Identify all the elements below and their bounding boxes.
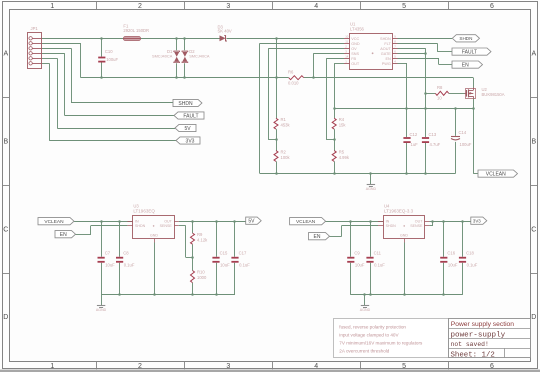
svg-text:OUT: OUT [351, 62, 360, 66]
svg-text:EN: EN [386, 57, 392, 61]
wire overvoltage divider column [276, 78, 278, 119]
wire U4 AGND stub [364, 295, 366, 305]
net flag SHDN left [173, 99, 202, 106]
wire U1 SHDN pin to flag [398, 38, 453, 40]
junction at (425.5,53.3) [424, 52, 427, 55]
junction at (101.8,38.3) [100, 37, 103, 40]
wire U3 output cap columns [216, 221, 218, 257]
svg-text:C16: C16 [447, 251, 455, 256]
wire U3 OUT row to 5V flag [179, 221, 246, 223]
wire bottom ground rail [260, 173, 456, 175]
svg-text:A: A [531, 51, 536, 58]
svg-text:4: 4 [314, 363, 318, 370]
bottom shadow strip [0, 370, 540, 372]
wire JP1 pin4 to FAULT flag [42, 53, 65, 55]
junction at (154.0,294.9) [153, 293, 156, 296]
wire U4 OUT row to 3V3 flag [429, 221, 470, 223]
wire U3 GND column [154, 243, 156, 295]
junction at (370,221.2) [369, 220, 372, 223]
svg-text:JP1: JP1 [31, 26, 39, 31]
resistor R10 [191, 271, 195, 283]
net flag FAULT right [452, 48, 491, 55]
svg-text:SK 40V: SK 40V [218, 29, 232, 34]
wire U1 FLT pin to FAULT flag [398, 43, 438, 45]
diode D3 [220, 35, 226, 41]
svg-text:AOUT: AOUT [380, 47, 391, 51]
wire U3 AGND stub [101, 295, 103, 305]
svg-text:C17: C17 [239, 251, 247, 256]
wire C11 column [370, 221, 372, 257]
svg-text:0.010: 0.010 [288, 80, 299, 85]
svg-text:GND: GND [150, 234, 158, 238]
svg-text:GND: GND [400, 234, 408, 238]
svg-text:C13: C13 [429, 132, 437, 137]
wire U1 GND pin to bottom rail [260, 43, 344, 45]
svg-text:SHDN: SHDN [459, 36, 472, 41]
svg-text:C8: C8 [123, 251, 129, 256]
svg-text:fused, reverse polarity protec: fused, reverse polarity protection [339, 324, 406, 329]
wire D1 column [176, 38, 178, 50]
svg-text:10: 10 [345, 35, 349, 39]
net flag 5V output [246, 217, 262, 224]
wire JP1 pin2 to ground rail [42, 43, 81, 45]
svg-text:SENSE: SENSE [410, 224, 423, 228]
junction at (334.2,139.9) [333, 138, 336, 141]
junction at (404,294.9) [403, 293, 406, 296]
op-amp U1 LT4356 box [350, 34, 393, 70]
svg-text:4.12k: 4.12k [197, 238, 208, 243]
svg-text:VCC: VCC [351, 37, 359, 41]
notes box [334, 319, 449, 358]
svg-text:7V minimum/16V maximum to regu: 7V minimum/16V maximum to regulators [339, 341, 423, 346]
wire middle ground stub [370, 174, 372, 185]
svg-text:0.1uF: 0.1uF [374, 262, 385, 267]
svg-text:GND: GND [351, 42, 360, 46]
svg-text:SHDN: SHDN [135, 224, 146, 228]
resistor R1 [274, 118, 278, 129]
wire U1 PWG column / C12 [398, 63, 408, 65]
svg-text:1uF: 1uF [411, 142, 419, 147]
junction at (276,173.5) [275, 172, 278, 175]
junction at (192.5,294.9) [191, 293, 194, 296]
TVS diode D2 [182, 52, 187, 57]
svg-text:Power supply section: Power supply section [451, 321, 514, 328]
svg-text:4.7uF: 4.7uF [430, 142, 441, 147]
svg-text:R4: R4 [339, 117, 345, 122]
net flag VCLEAN U4 [290, 218, 326, 225]
junction at (407,108.9) [405, 107, 408, 110]
svg-text:A: A [3, 51, 8, 58]
junction at (216,221.2) [215, 220, 218, 223]
wire feedback divider column [334, 109, 336, 118]
net flag 3V3 left [176, 137, 200, 144]
wire U4 output cap columns [443, 221, 445, 257]
svg-text:1: 1 [50, 363, 54, 370]
svg-text:C7: C7 [105, 251, 111, 256]
svg-text:10: 10 [437, 96, 442, 101]
wire main input rail [41, 38, 123, 40]
svg-text:3: 3 [226, 363, 230, 370]
svg-text:3V3: 3V3 [186, 138, 195, 144]
wire gate resistor row [426, 93, 436, 95]
wire C14 column [455, 109, 457, 136]
svg-text:5: 5 [402, 363, 406, 370]
capacitor C13 [422, 137, 429, 139]
svg-text:EN: EN [462, 62, 469, 68]
svg-text:4.99k: 4.99k [339, 155, 350, 160]
svg-text:OV: OV [351, 47, 357, 51]
junction at (176.7,77.7) [175, 76, 178, 79]
junction at (407,173.5) [405, 172, 408, 175]
svg-text:100uF: 100uF [460, 142, 472, 147]
junction at (433,221.2) [431, 220, 434, 223]
resistor R5 [332, 151, 336, 162]
svg-text:R2: R2 [281, 150, 287, 155]
svg-text:SMCJ40CA: SMCJ40CA [189, 53, 210, 58]
junction at (425.5,173.5) [424, 172, 427, 175]
wire U4 bottom rail [351, 294, 463, 296]
U1 pin stubs left [344, 38, 350, 40]
svg-text:VCLEAN: VCLEAN [296, 219, 316, 225]
wire U3 bottom rail [101, 294, 235, 296]
svg-text:3V3: 3V3 [473, 219, 481, 224]
svg-text:C9: C9 [354, 251, 360, 256]
resistor R2 [274, 151, 278, 162]
junction at (235,221.2) [233, 220, 236, 223]
svg-text:10uF: 10uF [105, 262, 115, 267]
svg-text:FLT: FLT [384, 42, 391, 46]
junction at (455.5,108.9) [454, 107, 457, 110]
capacitor C9 [347, 257, 354, 259]
net flag EN U4 [309, 233, 330, 240]
wire R9 R10 divider column [192, 221, 194, 233]
junction at (370.9,173.5) [369, 172, 372, 175]
svg-text:SMCJ40CA: SMCJ40CA [152, 53, 173, 58]
svg-text:VCLEAN: VCLEAN [486, 171, 506, 177]
svg-text:B: B [3, 138, 8, 145]
resistor R9 [191, 233, 195, 244]
junction at (370,294.9) [369, 293, 372, 296]
svg-text:5V: 5V [248, 219, 255, 225]
svg-text:AGND: AGND [360, 308, 371, 312]
svg-text:GATE: GATE [381, 52, 392, 56]
net flag 5V left [175, 124, 196, 131]
svg-text:1: 1 [50, 3, 54, 10]
junction at (101.1,221.2) [100, 220, 103, 223]
junction at (350.8,221.2) [349, 220, 352, 223]
capacitor C18 [459, 257, 466, 259]
svg-text:3: 3 [226, 3, 230, 10]
junction at (276,77.7) [275, 76, 278, 79]
svg-text:power-supply: power-supply [451, 332, 506, 340]
wire ground return line [81, 77, 289, 79]
wire C9 column [350, 221, 352, 257]
wire EN to U4 SHDN [330, 236, 342, 238]
svg-text:EN: EN [314, 234, 321, 240]
capacitor C12 [403, 137, 410, 139]
svg-text:R9: R9 [197, 232, 203, 237]
fuse F1 [124, 37, 141, 41]
svg-text:C12: C12 [410, 132, 418, 137]
svg-text:C11: C11 [374, 251, 382, 256]
svg-text:2: 2 [138, 3, 142, 10]
svg-text:Sheet: 1/2: Sheet: 1/2 [451, 351, 495, 359]
junction at (101.8,77.7) [100, 76, 103, 79]
capacitor C11 [366, 257, 373, 259]
svg-text:5V: 5V [184, 126, 191, 132]
junction at (184.9,38.3) [183, 37, 186, 40]
svg-text:5: 5 [402, 3, 406, 10]
wire U4 SENSE jog [429, 225, 433, 227]
junction at (425.5,108.9) [424, 107, 427, 110]
U3 pin stubs [127, 221, 132, 223]
svg-text:R1: R1 [281, 117, 287, 122]
wire VCLEAN to U3 IN [74, 221, 133, 223]
svg-text:PWG: PWG [382, 62, 391, 66]
svg-text:100uF: 100uF [106, 57, 118, 62]
junction at (462.5,221.2) [461, 220, 464, 223]
wire C8 column [119, 221, 121, 257]
svg-text:10uF: 10uF [448, 262, 458, 267]
capacitor C16 [440, 257, 447, 259]
svg-text:FAULT: FAULT [462, 49, 477, 55]
svg-text:C18: C18 [466, 251, 474, 256]
frame row ticks [2, 97, 9, 99]
capacitor C8 [116, 257, 123, 259]
junction at (443.8,294.9) [442, 293, 445, 296]
svg-text:100k: 100k [281, 155, 291, 160]
svg-text:2920L 150DR: 2920L 150DR [123, 28, 149, 33]
connector JP1 [28, 33, 42, 69]
wire U1 SNS pin [314, 53, 345, 55]
resistor R6 shunt [289, 76, 304, 80]
transistor U2 MOSFET [465, 93, 467, 95]
wire VCLEAN to U4 IN [326, 221, 384, 223]
svg-text:FB: FB [351, 57, 356, 61]
svg-text:14: 14 [345, 55, 349, 59]
svg-text:2: 2 [138, 363, 142, 370]
wire D2 column [184, 38, 186, 50]
wire JP1 pin3 to SHDN flag [42, 48, 72, 50]
resistor R4 [332, 118, 336, 129]
svg-text:C: C [531, 226, 536, 233]
svg-text:C15: C15 [220, 251, 228, 256]
frame column ticks [96, 2, 98, 10]
svg-text:4: 4 [314, 3, 318, 10]
svg-text:R6: R6 [288, 69, 294, 74]
wire C10 column [101, 38, 103, 56]
svg-text:VCLEAN: VCLEAN [44, 219, 64, 225]
svg-text:453k: 453k [281, 123, 291, 128]
svg-text:15k: 15k [339, 123, 347, 128]
junction at (184.9,77.7) [183, 76, 186, 79]
voltage regulator U4 LT1963EQ-3.3 box [384, 216, 425, 239]
junction at (443.8,221.2) [442, 220, 445, 223]
svg-text:R10: R10 [197, 269, 205, 274]
junction at (334.2,173.5) [333, 172, 336, 175]
ground symbol input section [367, 184, 375, 186]
title block [449, 319, 531, 358]
resistor R8 gate [435, 91, 448, 95]
junction at (425.5,93.3) [424, 92, 427, 95]
svg-text:11: 11 [345, 40, 348, 44]
net flag VCLEAN output [478, 170, 518, 177]
junction at (119.6,221.2) [118, 220, 121, 223]
net flag SHDN right [452, 35, 479, 42]
svg-text:not saved!: not saved! [451, 341, 489, 348]
svg-text:SNS: SNS [351, 52, 359, 56]
svg-text:LT1963EQ-3.3: LT1963EQ-3.3 [384, 208, 414, 213]
svg-text:C10: C10 [105, 49, 113, 54]
junction at (119.6,294.9) [118, 293, 121, 296]
svg-text:AGND: AGND [96, 308, 107, 312]
wire U1 OUT pin to output row [334, 63, 344, 65]
U1 pin stubs right [392, 38, 397, 40]
junction at (313.5,77.7) [312, 76, 315, 79]
svg-text:SHDN: SHDN [386, 224, 397, 228]
svg-text:BUK98150A: BUK98150A [482, 92, 505, 97]
net flag VCLEAN U3 [38, 218, 74, 225]
ground symbol U4 AGND [361, 305, 369, 307]
svg-text:SHDN: SHDN [178, 101, 193, 107]
wire U1 pin4 tie [398, 53, 426, 55]
net flag 3V3 output [471, 217, 487, 224]
junction at (276,139.9) [275, 138, 278, 141]
wire rail to shunt row [276, 38, 278, 77]
svg-text:0.1uF: 0.1uF [467, 262, 478, 267]
net flag EN U3 [55, 231, 76, 238]
junction at (192.5,221.2) [191, 220, 194, 223]
capacitor C17 [231, 257, 238, 259]
junction at (276,38.3) [275, 37, 278, 40]
svg-text:1000: 1000 [197, 275, 207, 280]
svg-text:D: D [3, 314, 8, 321]
svg-text:6: 6 [490, 363, 494, 370]
svg-text:C: C [3, 226, 8, 233]
wire EN to U3 SHDN [76, 234, 92, 236]
svg-text:B: B [531, 138, 536, 145]
svg-text:10uF: 10uF [220, 262, 230, 267]
capacitor C14 polarized [451, 136, 460, 138]
wire C7 column [101, 221, 103, 257]
junction at (216,294.9) [215, 293, 218, 296]
svg-text:10uF: 10uF [355, 262, 365, 267]
ground symbol U3 AGND [97, 305, 105, 307]
wire U4 GND column [404, 243, 406, 295]
wire FET source to VCLEAN flag [473, 98, 475, 173]
svg-text:6: 6 [490, 3, 494, 10]
wire U3 SENSE jog [179, 225, 186, 227]
svg-text:EN: EN [60, 232, 67, 238]
svg-text:2A overcurrent threshold: 2A overcurrent threshold [339, 349, 389, 354]
wire JP1 pin6 to 3V3 flag [42, 63, 50, 65]
svg-text:FAULT: FAULT [183, 113, 198, 119]
svg-text:C14: C14 [459, 130, 467, 135]
wire U1 GATE column [398, 48, 426, 50]
net flag FAULT left [174, 112, 204, 119]
svg-text:AGND: AGND [366, 187, 377, 191]
svg-text:input voltage clamped to 40V: input voltage clamped to 40V [339, 333, 399, 338]
junction at (176.7,38.3) [175, 37, 178, 40]
svg-text:R5: R5 [339, 150, 345, 155]
capacitor C15 [212, 257, 219, 259]
capacitor C7 [98, 257, 105, 259]
svg-text:D: D [531, 314, 536, 321]
junction at (192.5,257.3) [191, 256, 194, 259]
junction at (365,294.9) [363, 293, 366, 296]
capacitor C10 [98, 57, 105, 59]
wire U1 EN pin to EN flag [398, 58, 440, 60]
svg-text:SHDN: SHDN [380, 37, 391, 41]
svg-text:LT4356: LT4356 [350, 26, 365, 31]
junction at (334.2,108.9) [333, 107, 336, 110]
voltage regulator U3 LT1963EQ box [133, 216, 175, 239]
svg-text:SENSE: SENSE [160, 224, 173, 228]
wire JP1 pin5 to 5V flag [42, 58, 58, 60]
wire output row [334, 108, 473, 110]
U4 pin stubs [378, 221, 384, 223]
wire U1 FB pin to feedback divider [326, 58, 344, 60]
svg-text:R8: R8 [437, 85, 443, 90]
svg-text:0.1uF: 0.1uF [239, 262, 250, 267]
TVS diode D1 [174, 52, 179, 57]
wire U1 OV pin to divider [269, 48, 345, 50]
svg-text:0.1uF: 0.1uF [124, 262, 135, 267]
svg-text:LT1963EQ: LT1963EQ [133, 208, 155, 213]
junction at (473.3,108.9) [472, 107, 475, 110]
net flag EN right [452, 61, 483, 68]
